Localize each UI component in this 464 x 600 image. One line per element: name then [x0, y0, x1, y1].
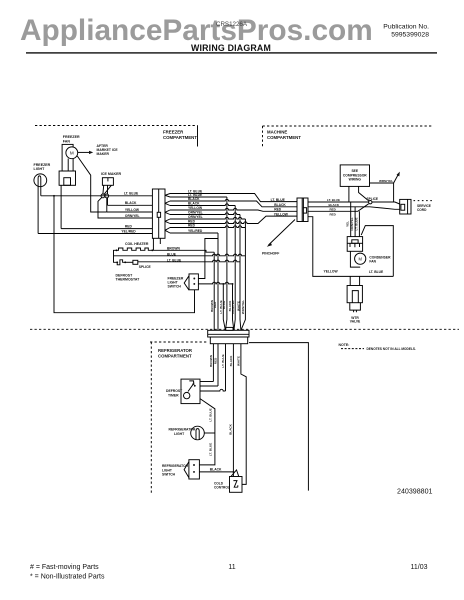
svg-text:ORN/YEL: ORN/YEL: [125, 214, 140, 218]
svg-text:CONTROL: CONTROL: [214, 486, 230, 490]
svg-text:FREEZER: FREEZER: [163, 130, 184, 135]
wire YELLOW drop to condenser line: [308, 217, 393, 277]
wire ORN/YEL 2 branch down: [170, 217, 245, 219]
LT.BLUE drop to light and switch: [199, 399, 215, 465]
svg-text:COMPARTMENT: COMPARTMENT: [163, 135, 197, 140]
svg-text:COMPARTMENT: COMPARTMENT: [158, 354, 192, 359]
svg-text:RED: RED: [274, 208, 282, 212]
svg-text:M: M: [358, 256, 362, 261]
svg-text:DENOTES NOT IN ALL MODELS.: DENOTES NOT IN ALL MODELS.: [367, 347, 417, 351]
svg-text:LT. BLUE: LT. BLUE: [167, 258, 182, 262]
svg-text:BLACK: BLACK: [125, 201, 137, 205]
svg-text:SWITCH: SWITCH: [168, 285, 182, 289]
wire YEL/RED branch: [170, 232, 218, 234]
svg-text:CORD: CORD: [417, 208, 427, 212]
svg-text:COMPARTMENT: COMPARTMENT: [267, 135, 301, 140]
ice maker terminals: [101, 194, 105, 198]
freezer compartment dashed border: [35, 125, 198, 127]
freezer connector block: [152, 189, 165, 238]
svg-text:YELLOW: YELLOW: [324, 269, 339, 273]
svg-text:BLACK: BLACK: [329, 203, 340, 207]
see compressor wiring box: [340, 165, 369, 187]
svg-text:REFRIGERATOR: REFRIGERATOR: [169, 428, 196, 432]
svg-text:PINCHOFF: PINCHOFF: [262, 251, 279, 255]
wire YEL/RED freezer: [38, 233, 152, 235]
cabinet outline wire: [249, 343, 308, 491]
svg-text:LT. BLUE: LT. BLUE: [271, 198, 286, 202]
svg-text:WHITE: WHITE: [236, 356, 240, 366]
svg-text:M: M: [70, 151, 74, 156]
bus wire v3 from switch: [223, 284, 225, 330]
svg-text:WIRING: WIRING: [349, 178, 362, 182]
svg-text:ORN/YEL: ORN/YEL: [188, 215, 203, 219]
svg-text:LT. BLUE: LT. BLUE: [355, 218, 359, 231]
svg-text:RED: RED: [330, 212, 337, 216]
svg-text:11: 11: [228, 564, 235, 571]
after market ice maker pointer arrow: [78, 151, 90, 153]
refrigerator light lamp: [191, 426, 205, 440]
svg-text:240398801: 240398801: [397, 487, 433, 495]
svg-text:# = Fast-moving Parts: # = Fast-moving Parts: [30, 564, 99, 571]
fridge bus verticals: [212, 344, 214, 382]
bus wire v2 YEL/RED: [217, 233, 219, 330]
bus wire v6 BLACK: [234, 206, 235, 331]
svg-text:YEL: YEL: [346, 221, 350, 227]
svg-text:SPLICE: SPLICE: [139, 265, 152, 269]
svg-text:YEL/RED: YEL/RED: [188, 229, 203, 233]
svg-text:SWITCH: SWITCH: [162, 473, 176, 477]
wire BLACK sloping to plug: [308, 207, 400, 210]
svg-text:LIGHT: LIGHT: [174, 432, 185, 436]
svg-text:11/03: 11/03: [411, 564, 428, 571]
svg-text:SPLICE: SPLICE: [367, 197, 379, 201]
svg-text:Publication No.: Publication No.: [383, 24, 429, 31]
svg-text:FAN: FAN: [369, 260, 376, 264]
svg-text:REFRIGERATOR: REFRIGERATOR: [158, 348, 193, 353]
wire LT.BLUE freezer: [41, 195, 153, 197]
svg-text:WRN/YEL: WRN/YEL: [379, 179, 393, 183]
wire LT.BLUE to plug with splice: [308, 202, 400, 204]
svg-text:WIRING DIAGRAM: WIRING DIAGRAM: [191, 43, 271, 53]
wire LT.BLUE branch down: [170, 196, 227, 198]
wire RED diagonal to splice: [308, 204, 369, 212]
svg-text:AppliancePartsPros.com: AppliancePartsPros.com: [20, 14, 373, 47]
wire YEL/RED detour to freezer light switch: [198, 239, 218, 279]
ice maker leads: [102, 185, 105, 194]
svg-text:RED: RED: [188, 224, 196, 228]
svg-text:LIGHT: LIGHT: [34, 167, 46, 171]
condenser fan: [350, 251, 360, 267]
svg-text:LT. BLUE: LT. BLUE: [369, 270, 384, 274]
relay feed wires: [351, 202, 360, 237]
svg-text:CRS1226A: CRS1226A: [216, 21, 248, 28]
wire LT.BLUE to machine: [170, 194, 297, 202]
splice capsule: [133, 260, 138, 264]
ice maker box: [102, 178, 113, 186]
svg-text:WHITE: WHITE: [236, 301, 240, 311]
bus wire v1 BROWN: [213, 252, 215, 330]
wire RED freezer: [61, 228, 152, 230]
svg-text:RED: RED: [125, 225, 133, 229]
heater left link: [114, 250, 118, 262]
wire RED branch down: [170, 226, 245, 228]
bus wire v4 LT.BLUE: [225, 197, 227, 330]
svg-text:ICE MAKER: ICE MAKER: [101, 172, 122, 176]
defrost thermostat: [116, 261, 118, 263]
wire BLACK switch to cold control: [199, 471, 233, 473]
wire RED to machine: [170, 208, 297, 211]
connector fan-in leads: [165, 194, 170, 198]
bus wire v8: [241, 219, 246, 330]
svg-text:FREEZER: FREEZER: [63, 135, 80, 139]
svg-text:FREEZER: FREEZER: [34, 163, 51, 167]
refrigerator connector block: [208, 330, 249, 337]
svg-text:YELLOW: YELLOW: [125, 208, 140, 212]
svg-text:MAKER: MAKER: [97, 152, 110, 156]
svg-text:DEFROST: DEFROST: [166, 389, 183, 393]
machine connector block: [297, 198, 308, 222]
svg-text:NOTE:: NOTE:: [339, 343, 350, 347]
compressor relay box: [347, 237, 362, 252]
service cord plug: [400, 199, 411, 214]
wire: fan plug to RED line: [60, 185, 62, 228]
bus wire v5 from switch: [233, 284, 234, 330]
svg-text:BROWN: BROWN: [167, 246, 180, 250]
svg-text:BLACK: BLACK: [210, 468, 222, 472]
svg-text:BLACK: BLACK: [274, 203, 286, 207]
freezer fan housing: [62, 144, 73, 171]
freezer fan motor: [66, 147, 78, 159]
refrigerator compartment dashed border: [150, 342, 207, 494]
svg-text:BLACK: BLACK: [188, 197, 200, 201]
refrigerator light switch: [189, 460, 200, 479]
wire: terminal to YELLOW: [106, 198, 108, 212]
svg-text:COIL HEATER: COIL HEATER: [125, 242, 149, 246]
defrost timer wires: [200, 381, 213, 383]
wire: light switch feed drop: [53, 195, 55, 197]
svg-text:BLUE: BLUE: [222, 301, 226, 309]
defrost timer: [181, 379, 200, 404]
machine compartment dashed border: [263, 126, 434, 148]
svg-text:* = Non-Illustrated Parts: * = Non-Illustrated Parts: [30, 574, 105, 581]
svg-text:BLACK: BLACK: [188, 202, 200, 206]
wire: freezer light right leg to LT.BLUE: [40, 187, 42, 196]
svg-text:LT. BLUE: LT. BLUE: [327, 198, 340, 202]
svg-text:BROWN: BROWN: [209, 354, 213, 367]
wire YELLOW to machine: [170, 216, 297, 223]
wire: switch to bus: [198, 282, 232, 284]
wire: freezer light left leg to YEL/RED: [37, 187, 39, 234]
header rule: [26, 52, 437, 53]
water valve: [350, 276, 359, 285]
svg-text:YELLOW: YELLOW: [274, 212, 289, 216]
svg-text:LT. BLUE: LT. BLUE: [221, 354, 225, 367]
bus wire v7 ORN/YEL: [239, 215, 242, 331]
svg-text:RED: RED: [214, 357, 218, 364]
svg-text:ORN/YEL: ORN/YEL: [350, 217, 354, 231]
svg-text:VALVE: VALVE: [350, 320, 361, 324]
wire ORN/YEL branch down: [170, 213, 240, 215]
svg-text:BLACK: BLACK: [229, 355, 233, 367]
svg-text:BLUE: BLUE: [167, 252, 177, 256]
wire BLACK to machine: [170, 199, 297, 207]
svg-text:THERMOSTAT: THERMOSTAT: [116, 278, 141, 282]
svg-text:YEL/RED: YEL/RED: [121, 229, 136, 233]
wire LT.BLUE to bus: [125, 261, 133, 263]
svg-text:ORN/YEL: ORN/YEL: [188, 211, 203, 215]
svg-text:BLACK: BLACK: [229, 423, 233, 435]
svg-text:LT. BLUE: LT. BLUE: [124, 192, 139, 196]
freezer light lamp: [34, 174, 47, 187]
cold control: [230, 477, 243, 493]
svg-text:LT. BLUE: LT. BLUE: [209, 443, 213, 456]
coil heater resistor: [116, 249, 118, 251]
svg-text:TIMER: TIMER: [168, 393, 179, 397]
svg-text:YELLOW: YELLOW: [188, 206, 203, 210]
pinchoff pointer: [269, 220, 296, 246]
freezer fan connector plug: [59, 171, 75, 185]
svg-text:FAN: FAN: [63, 139, 71, 143]
wire BLUE to bus: [114, 254, 246, 256]
svg-text:WRN/YEL: WRN/YEL: [241, 300, 245, 314]
svg-text:5995399028: 5995399028: [391, 32, 429, 39]
bottom dashed border: [30, 328, 459, 330]
svg-text:RED: RED: [330, 208, 337, 212]
compressor box legs: [349, 186, 370, 202]
wire YELLOW freezer: [107, 211, 153, 213]
svg-text:ORN/YEL: ORN/YEL: [231, 300, 235, 314]
wire BLACK branch down: [170, 204, 235, 206]
wire: terminal to ORN/YEL: [98, 197, 152, 218]
svg-text:MACHINE: MACHINE: [267, 130, 287, 135]
wire BLACK freezer: [108, 204, 153, 206]
wire BROWN to bus: [152, 250, 214, 252]
wire: fan to yellow line: [77, 156, 107, 212]
svg-text:LT. BLUE: LT. BLUE: [209, 408, 213, 421]
compressor outline: [361, 226, 393, 277]
WRN/YEL wire and arrow: [370, 183, 394, 202]
freezer light switch: [189, 274, 198, 290]
freezer block bottom legs: [153, 238, 160, 250]
svg-text:RED: RED: [213, 301, 217, 308]
